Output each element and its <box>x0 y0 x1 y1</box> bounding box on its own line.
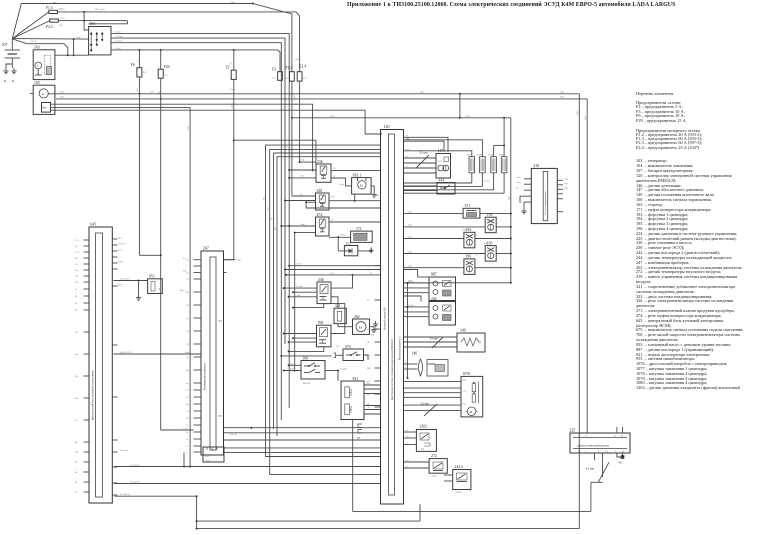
svg-text:F4: F4 <box>367 355 370 357</box>
svg-text:Е4: Е4 <box>367 381 370 383</box>
svg-text:4ПЦ: 4ПЦ <box>462 230 467 232</box>
svg-text:12: 12 <box>186 390 189 392</box>
svg-text:(1кв): (1кв) <box>339 183 344 186</box>
svg-text:224: 224 <box>439 178 445 182</box>
svg-text:ВЗ: ВЗ <box>138 61 142 63</box>
svg-text:29: 29 <box>75 246 78 248</box>
svg-text:(4б): (4б) <box>60 96 64 99</box>
svg-text:(2д): (2д) <box>408 265 412 268</box>
svg-text:1 (1кв): 1 (1кв) <box>114 30 121 33</box>
svg-text:107: 107 <box>2 42 8 47</box>
svg-text:833.1: 833.1 <box>353 173 362 177</box>
svg-text:P1: P1 <box>219 319 223 323</box>
svg-text:15А: 15А <box>75 239 79 242</box>
svg-text:700: 700 <box>318 321 324 325</box>
svg-text:(1кв): (1кв) <box>295 58 300 61</box>
svg-text:+BATT: +BATT <box>118 242 126 245</box>
svg-text:86: 86 <box>333 168 336 170</box>
svg-text:ПМ: ПМ <box>463 380 467 382</box>
svg-text:87: 87 <box>331 220 334 222</box>
svg-text:48: 48 <box>75 482 78 484</box>
svg-text:Вкл: Вкл <box>517 182 522 184</box>
svg-text:Кр: Кр <box>75 442 79 444</box>
svg-text:NC: NC <box>619 461 623 465</box>
svg-text:Сн: Сн <box>75 420 79 422</box>
svg-text:Тр: Тр <box>186 318 189 320</box>
svg-text:К9: К9 <box>75 258 79 260</box>
svg-text:(4б): (4б) <box>560 91 564 94</box>
svg-text:(8д): (8д) <box>560 96 564 99</box>
svg-text:30А: 30А <box>330 272 334 275</box>
svg-text:Рец: Рец <box>517 177 521 179</box>
svg-text:15A: 15A <box>164 74 168 77</box>
svg-text:1078: 1078 <box>477 153 483 156</box>
svg-text:Моторный разъем (С): Моторный разъем (С) <box>399 336 402 360</box>
svg-text:(7д): (7д) <box>331 195 335 198</box>
svg-text:Н2: Н2 <box>367 342 371 344</box>
svg-text:1080: 1080 <box>499 153 505 156</box>
svg-text:А/С: А/С <box>516 187 520 190</box>
svg-text:АБС: АБС <box>438 160 443 163</box>
svg-text:(2б/С): (2б/С) <box>30 40 36 43</box>
svg-text:9кв: 9кв <box>75 398 78 400</box>
svg-text:ВРГ (1кв): ВРГ (1кв) <box>95 8 105 11</box>
svg-text:(1/2): (1/2) <box>60 8 65 11</box>
svg-text:Д2: Д2 <box>367 394 371 396</box>
svg-text:МЗ: МЗ <box>371 335 375 337</box>
svg-text:Пр: Пр <box>75 376 79 378</box>
svg-text:м: м <box>186 452 188 454</box>
svg-text:(1кв): (1кв) <box>465 115 470 118</box>
svg-text:т4: т4 <box>75 289 78 291</box>
svg-text:218: 218 <box>533 164 539 168</box>
svg-text:K15: K15 <box>118 249 123 251</box>
svg-text:Бк: Бк <box>186 418 189 420</box>
svg-text:(2кв): (2кв) <box>76 36 81 39</box>
svg-text:(5д): (5д) <box>564 182 568 185</box>
svg-text:F2.3: F2.3 <box>46 25 53 29</box>
svg-text:1079: 1079 <box>488 153 494 156</box>
svg-text:196: 196 <box>465 255 471 259</box>
svg-text:31: 31 <box>12 79 16 83</box>
svg-text:3д: 3д <box>186 439 189 441</box>
svg-text:474: 474 <box>317 213 323 217</box>
svg-text:(1кв): (1кв) <box>230 1 235 4</box>
svg-text:887: 887 <box>431 273 437 277</box>
svg-text:9кв: 9кв <box>75 354 78 356</box>
svg-text:(2кв): (2кв) <box>296 294 301 297</box>
svg-text:(2б): (2б) <box>60 91 64 94</box>
svg-text:44 (3б/2б): 44 (3б/2б) <box>120 493 130 496</box>
svg-text:А: А <box>159 288 161 291</box>
svg-text:104: 104 <box>89 22 95 26</box>
svg-text:F2.4: F2.4 <box>300 64 307 68</box>
svg-text:10A: 10A <box>143 71 147 74</box>
svg-text:К: К <box>186 446 188 448</box>
svg-text:4 (1кв): 4 (1кв) <box>114 47 121 50</box>
svg-text:сиг: сиг <box>406 436 409 438</box>
svg-text:В1: В1 <box>263 196 265 200</box>
svg-text:А3: А3 <box>367 406 371 409</box>
svg-text:СТ: СТ <box>186 279 190 281</box>
svg-text:Hfre: Hfre <box>118 236 122 239</box>
svg-text:ВД: ВД <box>406 138 409 140</box>
svg-text:2 (1/2кв): 2 (1/2кв) <box>114 35 123 38</box>
svg-text:(1кв): (1кв) <box>230 88 235 91</box>
svg-text:ДТОЖ: ДТОЖ <box>455 492 461 494</box>
svg-text:85: 85 <box>300 194 303 196</box>
svg-text:238: 238 <box>317 189 323 193</box>
svg-text:4ПЦ: 4ПЦ <box>484 243 489 245</box>
svg-text:2: 2 <box>476 235 478 237</box>
svg-text:F1.2: F1.2 <box>286 66 293 70</box>
svg-text:645: 645 <box>90 222 96 227</box>
svg-text:15: 15 <box>585 434 588 437</box>
svg-text:247: 247 <box>203 246 209 251</box>
svg-text:262: 262 <box>354 315 360 319</box>
svg-text:149: 149 <box>460 329 466 333</box>
svg-text:33 мм: 33 мм <box>586 467 595 471</box>
svg-text:3Ч0: 3Ч0 <box>159 90 161 95</box>
svg-text:Контроллер системы управления: Контроллер системы управления двигателем… <box>391 339 394 400</box>
svg-text:(1/2): (1/2) <box>60 17 65 20</box>
svg-text:Центральный блок кузовной элек: Центральный блок кузовной электроники <box>91 370 94 420</box>
svg-text:48 (3б/2б): 48 (3б/2б) <box>130 464 140 467</box>
svg-text:321: 321 <box>335 304 341 308</box>
svg-text:(2д): (2д) <box>508 196 511 200</box>
svg-text:с-: с- <box>405 367 407 369</box>
svg-text:(А/7б): (А/7б) <box>295 263 301 266</box>
svg-text:46: 46 <box>75 462 78 464</box>
svg-text:об: об <box>186 396 189 399</box>
svg-text:193: 193 <box>487 213 493 217</box>
svg-text:Кр: Кр <box>186 404 190 406</box>
svg-text:(1б/2д): (1б/2д) <box>339 233 346 236</box>
svg-text:3Ч0: 3Ч0 <box>137 87 139 92</box>
svg-text:(2д): (2д) <box>408 224 412 227</box>
svg-text:5в: 5в <box>406 156 408 158</box>
svg-text:ВСТоп: ВСТоп <box>303 382 311 385</box>
svg-text:336: 336 <box>318 278 324 282</box>
svg-text:171: 171 <box>356 227 362 231</box>
svg-text:(2б): (2б) <box>150 91 154 94</box>
svg-text:Им: Им <box>186 292 190 294</box>
svg-text:46 (3б/2б): 46 (3б/2б) <box>130 480 140 483</box>
svg-text:242: 242 <box>431 297 437 301</box>
svg-text:(2/4д): (2/4д) <box>408 280 414 283</box>
svg-text:(2/4д): (2/4д) <box>408 304 414 307</box>
svg-text:921: 921 <box>353 377 359 381</box>
svg-text:1: 1 <box>90 30 92 32</box>
svg-text:87: 87 <box>333 176 336 178</box>
svg-text:16: 16 <box>621 434 624 437</box>
svg-text:M: M <box>360 183 363 187</box>
svg-text:236: 236 <box>317 160 323 164</box>
svg-text:F1.3: F1.3 <box>46 6 53 10</box>
svg-text:Д8: Д8 <box>186 370 190 372</box>
svg-text:GND: GND <box>118 261 123 263</box>
svg-text:(2кв): (2кв) <box>300 223 305 226</box>
svg-text:АСС: АСС <box>75 251 80 254</box>
svg-text:МЗ: МЗ <box>376 195 380 197</box>
svg-text:(4б): (4б) <box>584 116 587 120</box>
svg-text:3 (1/2кв): 3 (1/2кв) <box>114 40 123 43</box>
svg-text:F2: F2 <box>226 66 230 70</box>
svg-text:ДТВ: ДТВ <box>432 476 437 478</box>
svg-text:КЗ-В: КЗ-В <box>290 369 295 371</box>
svg-text:АБ: АБ <box>186 330 190 333</box>
svg-text:120: 120 <box>384 124 390 129</box>
svg-text:12: 12 <box>614 434 617 437</box>
svg-text:Сб: Сб <box>75 263 79 266</box>
svg-text:2д: 2д <box>186 432 189 434</box>
svg-text:3: 3 <box>37 64 39 68</box>
svg-text:4: 4 <box>476 255 478 257</box>
svg-text:Кузовной разъем (В): Кузовной разъем (В) <box>383 307 386 330</box>
svg-text:Пит: Пит <box>463 403 467 405</box>
svg-text:К-линия: К-линия <box>120 450 129 452</box>
svg-text:(1д): (1д) <box>408 210 412 213</box>
svg-text:3: 3 <box>497 242 499 244</box>
svg-text:Эл. уп. кондиционером: Эл. уп. кондиционером <box>544 191 547 215</box>
svg-text:(2д): (2д) <box>408 250 412 253</box>
svg-text:В2: В2 <box>268 206 270 210</box>
svg-text:272: 272 <box>431 454 437 458</box>
svg-text:(1кв): (1кв) <box>231 103 234 108</box>
svg-text:5A: 5A <box>229 62 232 65</box>
svg-text:(2д): (2д) <box>408 235 412 238</box>
svg-text:кл: кл <box>186 260 189 262</box>
svg-text:1076: 1076 <box>462 372 470 376</box>
svg-text:(1-й): (1-й) <box>485 180 490 183</box>
svg-text:160: 160 <box>302 357 308 361</box>
svg-text:33 мм: 33 мм <box>421 402 429 406</box>
svg-text:44: 44 <box>75 472 78 474</box>
svg-text:(3д): (3д) <box>366 403 370 406</box>
svg-text:1д: 1д <box>186 425 189 427</box>
svg-text:1кв: 1кв <box>406 149 409 151</box>
svg-text:953: 953 <box>149 274 155 278</box>
svg-text:M: M <box>359 326 362 330</box>
svg-text:(3д) 30: (3д) 30 <box>230 433 238 436</box>
svg-text:(80) (14/25): (80) (14/25) <box>120 351 131 354</box>
svg-text:3: 3 <box>101 30 103 32</box>
svg-text:ЭндА: ЭндА <box>205 459 211 462</box>
svg-text:M: M <box>470 410 473 414</box>
svg-text:30: 30 <box>75 296 78 298</box>
svg-text:194: 194 <box>465 228 471 232</box>
svg-text:АДД: АДД <box>420 448 425 451</box>
svg-text:ДС: ДС <box>75 332 79 334</box>
svg-text:F29: F29 <box>164 65 170 69</box>
svg-text:12в: 12в <box>75 270 78 272</box>
svg-text:(1/2дв): (1/2дв) <box>340 368 347 371</box>
svg-text:Т: Т <box>186 266 188 268</box>
svg-text:сиг: сиг <box>406 460 409 462</box>
svg-text:(1кв): (1кв) <box>52 1 57 4</box>
svg-text:(1кв): (1кв) <box>300 159 305 162</box>
svg-text:G: G <box>42 92 45 96</box>
svg-text:Имм: Имм <box>180 290 185 292</box>
svg-text:В4: В4 <box>275 226 277 230</box>
svg-text:31: 31 <box>4 79 8 83</box>
svg-text:КЛ: КЛ <box>75 452 79 454</box>
svg-text:(1кв): (1кв) <box>236 259 241 262</box>
svg-text:675: 675 <box>345 345 351 349</box>
svg-text:(1/2дв): (1/2дв) <box>296 285 303 288</box>
svg-text:Диагностический разъем: Диагностический разъем <box>577 444 609 448</box>
svg-text:В3: В3 <box>271 216 273 220</box>
svg-text:ВМ: ВМ <box>367 368 371 370</box>
svg-text:Рег: Рег <box>43 107 48 110</box>
svg-text:103: 103 <box>34 81 40 85</box>
svg-text:(5д): (5д) <box>564 177 568 180</box>
svg-text:10A: 10A <box>272 77 276 80</box>
svg-text:Е1: Е1 <box>367 300 370 302</box>
svg-text:30А: 30А <box>300 175 304 178</box>
svg-text:(5д): (5д) <box>564 186 568 189</box>
svg-text:Д7: Д7 <box>186 357 190 359</box>
svg-text:(2б): (2б) <box>576 111 579 115</box>
svg-text:40A: 40A <box>284 77 288 80</box>
svg-text:1: 1 <box>497 223 499 225</box>
svg-text:25A: 25A <box>303 77 307 80</box>
svg-text:ДС: ДС <box>186 305 190 307</box>
svg-text:F6: F6 <box>131 63 135 67</box>
svg-text:1202: 1202 <box>419 425 427 429</box>
svg-text:Имм: Имм <box>118 284 123 286</box>
svg-text:P2: P2 <box>219 414 223 418</box>
svg-text:НЗ: НЗ <box>337 346 341 348</box>
svg-text:2: 2 <box>96 30 98 32</box>
svg-text:ОдА: ОдА <box>205 455 210 458</box>
svg-text:Сн: Сн <box>186 411 190 413</box>
svg-text:34: 34 <box>75 492 78 494</box>
svg-text:163: 163 <box>34 45 40 49</box>
svg-text:244.2: 244.2 <box>455 465 464 469</box>
svg-text:1077: 1077 <box>467 153 473 156</box>
svg-text:(1кв): (1кв) <box>330 115 335 118</box>
svg-text:пр: пр <box>186 383 189 385</box>
svg-text:СК: СК <box>75 276 79 278</box>
svg-text:146: 146 <box>412 352 418 356</box>
svg-text:Комбинация приборов: Комбинация приборов <box>203 363 206 390</box>
svg-text:(2б): (2б) <box>187 126 190 130</box>
svg-text:Кл: Кл <box>75 310 79 312</box>
svg-text:5Т0 34,24: 5Т0 34,24 <box>120 278 130 280</box>
svg-text:(3д) 34: (3д) 34 <box>230 426 238 429</box>
svg-text:225: 225 <box>570 429 576 433</box>
svg-text:322: 322 <box>346 241 351 245</box>
svg-text:F3: F3 <box>272 67 276 71</box>
svg-text:СН: СН <box>186 344 190 346</box>
svg-text:5в: 5в <box>406 430 408 432</box>
svg-text:+05: +05 <box>463 391 467 393</box>
svg-text:371: 371 <box>465 204 471 208</box>
svg-text:87: 87 <box>75 303 78 305</box>
svg-text:(1кв): (1кв) <box>293 95 296 100</box>
svg-text:2: 2 <box>227 273 229 275</box>
svg-text:(4б): (4б) <box>420 91 424 94</box>
svg-text:(4кв): (4кв) <box>185 351 190 354</box>
svg-text:Лб: Лб <box>75 281 79 284</box>
svg-text:30A: 30A <box>59 24 63 27</box>
